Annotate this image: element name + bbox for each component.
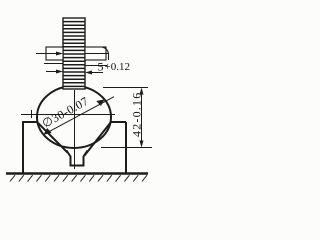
svg-text:+0.12: +0.12 xyxy=(105,61,130,73)
svg-text:5: 5 xyxy=(98,60,104,74)
svg-text:42-0.16: 42-0.16 xyxy=(130,92,144,137)
